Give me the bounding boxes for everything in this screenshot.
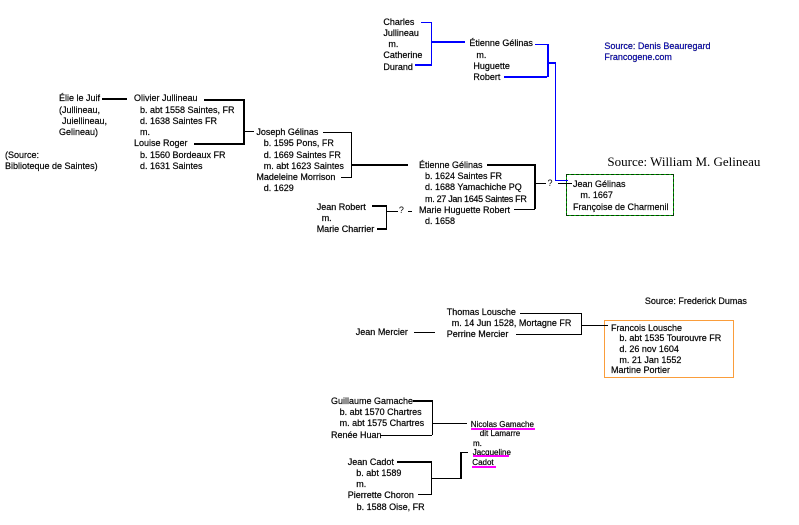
wire branch to Francois Lousche box [581, 325, 609, 326]
wire Etienne2 bracket top stub [487, 164, 535, 165]
wire branch horizontal toward Jacqueline [431, 478, 463, 479]
wire Renee bottom stub [380, 435, 432, 436]
underline Nicolas Gamache [471, 428, 536, 430]
node Etienne Gelinas (1624) / Marie Huguette Robert [419, 160, 527, 228]
node question mark (Jean Robert to Marie Huguette) [399, 205, 404, 216]
underline Jacqueline [473, 455, 510, 457]
underline Cadot [472, 466, 496, 468]
wire blue branch to Etienne1 [431, 41, 466, 43]
node Jean Robert / Marie Charrier [317, 202, 375, 236]
node Nicolas Gamache dit Lamarre / Jacqueline Cadot [471, 420, 534, 468]
wire Joseph bracket vertical [351, 132, 352, 179]
wire Etienne2 bracket vertical [534, 164, 535, 209]
wire Marie Charrier bottom stub [377, 228, 387, 229]
wire Olivier bracket vertical [243, 99, 244, 145]
node Source Denis Beauregard [604, 41, 710, 64]
node Francois Lousche / Martine Portier [611, 323, 721, 376]
wire stub to Jacqueline text [460, 452, 468, 453]
wire Marie Huguette bottom stub [514, 209, 536, 210]
wire branch to Etienne2 [351, 164, 408, 165]
wire Jean Robert bracket vertical [386, 205, 387, 229]
node Joseph Gelinas / Madeleine Morrison [256, 127, 343, 195]
wire blue Charles bracket vertical [431, 22, 433, 66]
wire Guillaume bracket top stub [413, 400, 432, 401]
orange box [604, 320, 734, 378]
wire Jean Robert bracket top stub [372, 205, 388, 206]
node Charles Jullineau / Catherine Durand [383, 17, 422, 73]
wire Joseph bracket top stub [323, 132, 352, 133]
node Jean Gelinas / Francoise de Charmenil [573, 179, 669, 213]
wire blue Etienne1 bracket top stub [535, 44, 548, 46]
node Source William M. Gelineau [607, 154, 760, 169]
green box [566, 174, 674, 216]
wire Perrine bottom stub [516, 334, 582, 335]
node Jean Mercier [356, 327, 408, 338]
node Thomas Lousche / Perrine Mercier [447, 307, 572, 341]
wire branch to Nicolas Gamache [432, 423, 468, 424]
wire Guillaume bracket vertical [432, 400, 433, 435]
wire Louise bottom stub [194, 143, 244, 144]
node Elie le Juif [59, 93, 107, 138]
wire blue branch to long vertical [547, 62, 557, 64]
wire branch vertical up to Jacqueline [460, 452, 461, 479]
wire branch toward ? (Marie Huguette) [386, 211, 398, 212]
wire Pierrette bottom stub [418, 494, 431, 495]
wire dash before ? (green box) [534, 183, 546, 184]
node Jean Cadot / Pierrette Choron [348, 457, 425, 513]
wire Jean Mercier to Perrine [414, 332, 436, 333]
node Guillaume Gamache / Renee Huan [331, 396, 424, 441]
node Olivier Jullineau / Louise Roger [134, 93, 235, 172]
wire blue Robert bottom stub [504, 76, 547, 78]
node Etienne Gelinas (top) / Huguette Robert [469, 38, 533, 83]
wire Thomas bracket vertical [581, 313, 582, 335]
wire dash after ? into green box [558, 183, 572, 184]
wire Madeleine bottom stub [341, 177, 352, 178]
wire blue long vertical down to Jean Gelinas [555, 62, 557, 181]
wire Olivier bracket top stub [204, 99, 244, 100]
wire Thomas bracket top stub [520, 313, 581, 314]
node Source Bibliotheque [5, 150, 98, 173]
wire Jean Cadot bracket vertical [431, 461, 432, 495]
wire Elie to Olivier [102, 98, 127, 99]
wire blue into green box [555, 180, 569, 182]
wire blue Charles bracket top stub [421, 22, 432, 24]
wire dash after ? to Marie Huguette [408, 211, 412, 212]
wire blue Durand bottom stub [415, 64, 431, 66]
wire branch to Joseph [243, 131, 254, 132]
node Source Frederick Dumas [645, 296, 747, 307]
node question mark (Etienne2 to Jean Gelinas) [548, 178, 553, 189]
wire Jean Cadot bracket top stub [397, 461, 432, 462]
wire blue Etienne1 bracket vertical [547, 44, 549, 78]
